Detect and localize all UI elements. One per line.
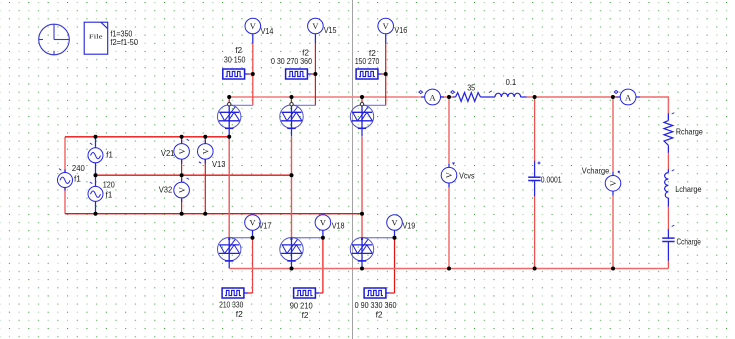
svg-text:Rcharge: Rcharge xyxy=(676,126,703,136)
junction: top rail / phase A xyxy=(227,135,231,139)
wire: Rcharge to Lcharge xyxy=(667,153,669,170)
lead: C1 top/bottom xyxy=(534,161,536,177)
wire: G2 output stub red part xyxy=(311,73,315,75)
lead: A1 left/right xyxy=(421,96,425,98)
junction: top rail / VS2 xyxy=(94,135,98,139)
junction: bottom rail / phase C xyxy=(360,212,364,216)
lead: Ccharge top/bottom xyxy=(667,229,669,238)
svg-text:35: 35 xyxy=(467,82,475,92)
lead: G5 output xyxy=(315,292,319,294)
wire: V14 gate column x=252.8 xyxy=(252,44,254,106)
svg-text:f1: f1 xyxy=(106,189,113,199)
svg-text:Vcharge: Vcharge xyxy=(582,166,610,176)
wire: DC- bottom bus y=269 xyxy=(229,268,668,270)
wire: T2 top stub xyxy=(291,97,293,103)
wire: T4 gate lead xyxy=(229,237,252,239)
gating block G1 xyxy=(223,69,245,79)
wire: V17 gate column x=252.5 xyxy=(252,236,254,293)
svg-text:0 30 270 360: 0 30 270 360 xyxy=(271,56,312,66)
inductor L1 (0.1) xyxy=(495,93,521,97)
wire: V32 column to bottom rail xyxy=(181,175,183,182)
wire: A1 right to junction xyxy=(441,96,453,98)
svg-text:150 270: 150 270 xyxy=(355,56,380,66)
source VS1 (240, f1) xyxy=(58,173,73,188)
lead: V32 top/bottom xyxy=(181,179,183,183)
wire: VS2 top stub xyxy=(95,137,97,148)
junction: bottom rail / VS3 xyxy=(94,212,98,216)
lead: V14 bottom stub xyxy=(252,34,254,44)
wire: T2 gate lead xyxy=(292,104,316,106)
wire: V21 to mid rail xyxy=(181,159,183,175)
inductor Lcharge xyxy=(665,173,669,198)
lead: T1 bottom xyxy=(228,128,230,136)
gating block G2 xyxy=(286,69,308,79)
source VS2 (f1) xyxy=(88,148,103,163)
wire: V21 column x=181.6 xyxy=(181,137,183,144)
voltmeter Vcvs xyxy=(441,167,457,183)
svg-text:V32: V32 xyxy=(159,185,173,195)
thyristor T2 xyxy=(280,105,303,128)
lead: R1 left xyxy=(453,96,456,98)
wire: VS2/VS3 middle stubs xyxy=(95,163,97,187)
lead: V17 bottom stub xyxy=(252,230,254,236)
marker: L1 tick xyxy=(489,91,492,93)
junction: T4 gate xyxy=(251,236,255,240)
wire: G5 output stub red part xyxy=(319,292,323,294)
lead: T5 top/bottom xyxy=(291,238,293,240)
thyristor T3 xyxy=(350,105,373,128)
svg-text:Vcvs: Vcvs xyxy=(459,170,474,180)
lead: V18 bottom stub xyxy=(322,230,324,236)
probe V19 xyxy=(387,215,403,231)
wire: phase-A top rail y=136.8 xyxy=(65,136,229,138)
wire: phase B vertical x=291.5 xyxy=(291,137,293,237)
svg-text:120: 120 xyxy=(103,179,115,189)
lead: G3 output xyxy=(378,73,382,75)
resistor R1 (35) xyxy=(456,93,481,102)
junction: T5 gate xyxy=(321,236,325,240)
wire: Lcharge to Ccharge xyxy=(667,206,669,229)
wire: phase-C bottom rail y=213.7 xyxy=(65,213,362,215)
marker: V32 tick xyxy=(187,178,189,179)
lead: T6 top/bottom xyxy=(361,238,363,240)
lead: Rcharge top/bottom xyxy=(667,113,669,120)
wire: T3 gate lead xyxy=(362,104,386,106)
gating block G4 xyxy=(222,288,244,298)
junction: bus / T1 xyxy=(227,95,231,99)
wire: V13 column x=205.3 xyxy=(204,137,206,144)
marker: Vcharge dot xyxy=(618,171,620,173)
svg-text:Ccharge: Ccharge xyxy=(677,237,702,247)
node: T1 gate open circle xyxy=(228,103,231,106)
marker: A1 diamond xyxy=(419,91,423,94)
junction: mid rail / phase B xyxy=(290,173,294,177)
wire: Vcvs branch top xyxy=(448,97,450,164)
wire: G6 output stub red part xyxy=(389,292,395,294)
wire: load branch Rcharge upper xyxy=(667,114,669,121)
svg-text:30 150: 30 150 xyxy=(224,55,246,65)
gating block G3 xyxy=(356,69,378,79)
junction: bottom bus / Vcharge xyxy=(611,267,615,271)
voltmeter V32 xyxy=(174,182,190,198)
junction: bus / T2 xyxy=(290,95,294,99)
lead: L1 right xyxy=(521,96,527,98)
thyristor T6 xyxy=(350,238,373,261)
wire: G1 output stub red part xyxy=(248,73,253,75)
wire: C1 branch top xyxy=(534,97,536,161)
file block xyxy=(84,22,108,54)
wire: G4 output stub red part xyxy=(248,292,253,294)
lead: G6 output xyxy=(386,292,389,294)
thyristor T1 xyxy=(218,105,241,128)
lead: Vcharge top/bottom xyxy=(612,172,614,176)
marker: R1 diamond xyxy=(451,91,455,94)
svg-text:V16: V16 xyxy=(394,25,407,35)
lead: V19 bottom stub xyxy=(394,230,396,236)
marker: Rcharge tick xyxy=(672,113,675,114)
wire: phase A vertical x=229.2 (T1 bottom to T4 top) xyxy=(228,137,230,237)
lead: A2 left/right xyxy=(617,96,621,98)
probe V17 xyxy=(245,215,261,231)
wire: left loop vertical (source VS1 branch) xyxy=(64,137,66,173)
lead: T2 bottom xyxy=(291,128,293,136)
svg-text:V21: V21 xyxy=(161,148,175,158)
junction: G2 output xyxy=(313,72,317,76)
junction: bottom bus / T6 xyxy=(360,267,364,271)
wire: A2 right to load corner, down xyxy=(640,97,669,114)
wire: bus to A1 red part xyxy=(419,96,421,98)
lead: V21 top/bottom xyxy=(181,140,183,144)
svg-text:0 90 330 360: 0 90 330 360 xyxy=(355,300,397,310)
marker: VS2 polarity xyxy=(90,143,92,145)
junction: top rail / V13 xyxy=(203,135,207,139)
wire: T1 gate lead xyxy=(229,104,253,106)
junction: bus / T3 xyxy=(360,95,364,99)
page boundary gray line xyxy=(352,0,354,339)
marker: V13 tick xyxy=(199,162,201,163)
marker: C1 plus xyxy=(538,162,541,165)
junction: top rail / V21 xyxy=(180,135,184,139)
junction: bus / Vcharge xyxy=(611,95,615,99)
voltmeter V21 xyxy=(174,144,190,160)
svg-text:f2: f2 xyxy=(236,309,243,319)
lead: V13 top/bottom xyxy=(204,140,206,144)
marker: A2 diamond xyxy=(614,91,618,94)
marker: VS3 polarity xyxy=(90,182,92,184)
capacitor Ccharge xyxy=(662,238,674,241)
svg-text:f1: f1 xyxy=(74,173,81,183)
thyristor T5 xyxy=(280,238,303,261)
junction: bottom bus / Vcvs xyxy=(447,267,451,271)
wire: cap junction to Vcharge junction xyxy=(535,96,613,98)
svg-text:240: 240 xyxy=(72,163,85,173)
svg-text:210 330: 210 330 xyxy=(219,299,244,309)
svg-text:V15: V15 xyxy=(324,25,337,35)
wire: G3 output stub red part xyxy=(382,73,386,75)
svg-text:V14: V14 xyxy=(261,26,274,36)
lead: T3 bottom xyxy=(361,128,363,136)
wire: T6 gate lead xyxy=(362,237,395,239)
junction: bottom bus / C1 xyxy=(533,267,537,271)
junction: G3 output xyxy=(384,72,388,76)
lead: G1 output xyxy=(245,73,249,75)
wire: Vcvs branch bottom xyxy=(448,187,450,269)
wire: left loop vertical lower xyxy=(64,187,66,213)
junction: G1 output xyxy=(251,72,255,76)
svg-text:0.0001: 0.0001 xyxy=(541,175,562,185)
node: T2 gate open circle xyxy=(290,103,293,106)
wire: V19 gate column x=394.5 xyxy=(394,236,396,293)
wire: Vcharge branch top xyxy=(612,97,614,172)
resistor Rcharge xyxy=(664,121,673,146)
wire: Vcharge branch bottom xyxy=(612,195,614,269)
lead: R1-L1 middle xyxy=(481,96,496,98)
node: T3 gate open circle xyxy=(360,103,363,106)
svg-text:f1: f1 xyxy=(106,150,113,160)
svg-text:V13: V13 xyxy=(212,159,226,169)
marker: Lcharge tick xyxy=(672,170,675,171)
wire: V16 gate column x=385.7 xyxy=(385,44,387,106)
wire: L1 right lead to cap junction xyxy=(527,96,535,98)
lead: V15 bottom stub xyxy=(314,34,316,44)
wire: T3 top stub xyxy=(361,97,363,103)
voltmeter V13 xyxy=(198,144,214,160)
svg-text:Lcharge: Lcharge xyxy=(675,184,702,194)
ammeter A2 xyxy=(620,89,636,105)
probe V16 xyxy=(378,18,394,34)
wire: phase-B mid rail y=175.2 xyxy=(96,174,292,176)
lead: Vcvs top/bottom xyxy=(448,164,450,168)
svg-text:0.1: 0.1 xyxy=(506,77,517,87)
svg-text:f2: f2 xyxy=(302,310,309,320)
probe V15 xyxy=(308,18,324,34)
svg-text:V18: V18 xyxy=(332,221,345,231)
junction: mid rail / VS2-VS3 xyxy=(94,173,98,177)
wire: V15 gate column x=315.4 xyxy=(314,44,316,106)
svg-text:File: File xyxy=(89,34,103,41)
junction: bottom rail / V13 xyxy=(203,212,207,216)
lead: G4 output xyxy=(244,292,248,294)
junction: bottom bus / T5 xyxy=(290,267,294,271)
gating block G6 xyxy=(364,288,386,298)
wire: C1 branch bottom xyxy=(534,196,536,269)
svg-text:V19: V19 xyxy=(403,221,416,231)
wire: T1 top stub xyxy=(228,97,230,103)
capacitor C1 (0.0001) xyxy=(528,177,540,180)
junction: bottom rail / V32 xyxy=(180,212,184,216)
ammeter A1 xyxy=(425,89,441,105)
source VS3 (120, f1) xyxy=(88,186,103,201)
wire: DC+ top bus y=97 xyxy=(229,96,419,98)
lead: VS1 top/bottom xyxy=(64,170,66,173)
lead: V16 bottom stub xyxy=(385,34,387,44)
probe V14 xyxy=(245,18,261,34)
wire: phase C vertical x=362 xyxy=(361,137,363,237)
wire: T5 gate lead xyxy=(292,237,323,239)
wire: V18 gate column x=322.9 xyxy=(322,236,324,293)
clock icon xyxy=(39,24,70,55)
lead: Lcharge top/bottom xyxy=(667,169,669,172)
lead: T4 top/bottom xyxy=(228,238,230,240)
junction: bus / A1-Vcvs xyxy=(447,95,451,99)
marker: VS1 polarity xyxy=(59,169,61,171)
marker: Vcvs arrow xyxy=(452,163,455,166)
svg-text:f2: f2 xyxy=(376,309,383,319)
svg-text:V17: V17 xyxy=(259,221,272,231)
svg-text:f2=f1-50: f2=f1-50 xyxy=(110,37,138,47)
marker: V21 tick xyxy=(187,139,189,140)
marker: Ccharge tick xyxy=(672,225,675,226)
gating block G5 xyxy=(294,288,316,298)
wire: Vcharge junction to A2 xyxy=(613,96,617,98)
junction: bus / C1 xyxy=(533,95,537,99)
voltmeter Vcharge xyxy=(605,176,621,192)
thyristor T4 xyxy=(218,238,241,261)
probe V18 xyxy=(315,215,331,231)
wire: VS3 bottom stub xyxy=(95,201,97,213)
junction: mid rail / V21-V32 xyxy=(180,173,184,177)
lead: G2 output xyxy=(307,73,311,75)
wire: Ccharge bottom to bus corner xyxy=(667,261,669,269)
junction: T6 gate xyxy=(393,236,397,240)
